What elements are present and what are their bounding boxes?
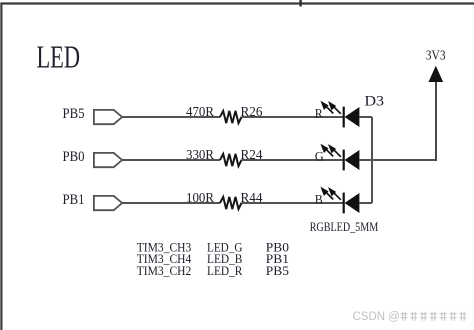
wire PB5 to R26: [122, 116, 220, 118]
svg-text:PB5: PB5: [266, 263, 289, 278]
pin map table row 1: [137, 239, 289, 254]
pin map table row 2: [137, 251, 289, 266]
wire bus to 3V3 riser: [372, 159, 436, 161]
resistor R24: [220, 154, 242, 166]
svg-text:RGBLED_5MM: RGBLED_5MM: [310, 219, 379, 234]
svg-text:CSDN @: CSDN @: [353, 311, 400, 323]
port PB0: [94, 153, 122, 167]
wire R44 to LED B: [242, 202, 344, 204]
wire LED B to bus: [359, 202, 372, 204]
port PB5: [94, 110, 122, 124]
wire LED R to bus: [359, 116, 372, 118]
svg-text:PB1: PB1: [63, 192, 85, 208]
svg-text:3V3: 3V3: [426, 49, 446, 64]
resistor R44: [220, 197, 242, 209]
LED D3 green element: [321, 145, 359, 171]
pin map table row 3: [137, 263, 289, 278]
svg-text:LED_R: LED_R: [207, 263, 243, 278]
svg-text:PB5: PB5: [63, 106, 85, 122]
svg-text:100R: 100R: [186, 191, 215, 206]
watermark CSDN: [353, 311, 400, 323]
LED D3 red element: [321, 102, 359, 128]
bus wire (common anode vertical): [371, 117, 373, 203]
wire PB0 to R24: [122, 159, 220, 161]
svg-text:PB0: PB0: [63, 149, 85, 165]
watermark glyph blocks: [401, 312, 467, 321]
svg-text:TIM3_CH2: TIM3_CH2: [137, 263, 192, 278]
LED D3 blue element: [321, 188, 359, 214]
wire R26 to LED R: [242, 116, 344, 118]
svg-text:LED: LED: [37, 39, 81, 74]
svg-text:330R: 330R: [186, 148, 215, 163]
wire LED G to bus: [359, 159, 372, 161]
power 3V3: [429, 66, 444, 82]
svg-text:G: G: [315, 149, 324, 164]
wire riser to 3V3: [435, 82, 437, 161]
border ruler tick: [299, 0, 301, 7]
svg-text:R: R: [315, 106, 323, 121]
svg-text:B: B: [315, 192, 323, 207]
wire PB1 to R44: [122, 202, 220, 204]
svg-text:470R: 470R: [186, 105, 215, 120]
svg-text:D3: D3: [365, 93, 385, 109]
resistor R26: [220, 111, 242, 123]
wire R24 to LED G: [242, 159, 344, 161]
port PB1: [94, 196, 122, 210]
